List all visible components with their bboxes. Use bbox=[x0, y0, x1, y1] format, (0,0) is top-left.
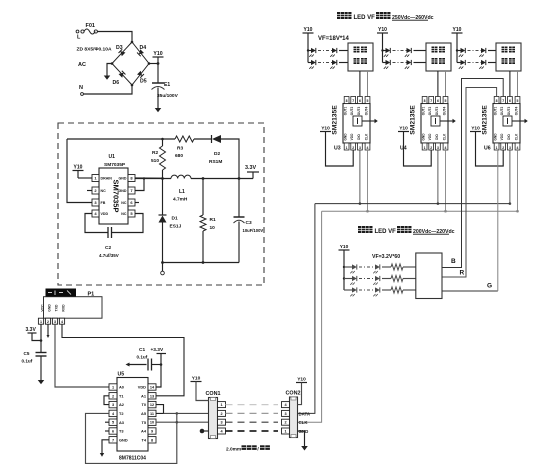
svg-text:E1: E1 bbox=[164, 82, 170, 88]
svg-text:P1: P1 bbox=[88, 292, 95, 298]
svg-text:OUT3: OUT3 bbox=[357, 107, 361, 116]
net terminal Y10 (rectified bus) bbox=[153, 51, 164, 64]
svg-text:GND: GND bbox=[494, 133, 498, 141]
diode D1 bbox=[159, 179, 182, 263]
svg-text:D3: D3 bbox=[116, 45, 123, 51]
svg-text:CON2: CON2 bbox=[286, 391, 301, 397]
diode D4 bbox=[137, 49, 144, 56]
svg-text:Y10: Y10 bbox=[153, 51, 162, 57]
svg-text:1: 1 bbox=[346, 146, 348, 150]
svg-text:2: 2 bbox=[352, 146, 354, 150]
svg-text:2: 2 bbox=[430, 146, 432, 150]
svg-text:VDD: VDD bbox=[500, 133, 504, 140]
svg-text:10uF/100V: 10uF/100V bbox=[243, 228, 264, 233]
top rail wire bbox=[67, 138, 175, 140]
CON1 pin4 key mark bbox=[200, 429, 209, 434]
svg-text:1: 1 bbox=[220, 403, 222, 407]
svg-text:Y10: Y10 bbox=[74, 164, 83, 170]
svg-text:ES1J: ES1J bbox=[170, 224, 182, 230]
svg-text:VCC: VCC bbox=[41, 304, 45, 312]
svg-text:C5: C5 bbox=[24, 351, 30, 356]
CLK drop to CON2 bbox=[298, 211, 322, 422]
svg-text:GND: GND bbox=[119, 189, 127, 193]
svg-text:NC: NC bbox=[101, 189, 107, 193]
dashed enclosure (non-isolated supply) bbox=[58, 123, 264, 285]
svg-text:VDD: VDD bbox=[138, 385, 146, 390]
svg-text:DATA: DATA bbox=[299, 411, 311, 416]
U5 pins 1-7 bbox=[109, 384, 128, 443]
svg-text:U6: U6 bbox=[484, 146, 491, 152]
svg-text:8: 8 bbox=[346, 99, 348, 103]
svg-text:Y10: Y10 bbox=[304, 27, 313, 33]
pin8 wire to rail bbox=[135, 177, 163, 179]
harness label bbox=[226, 445, 270, 452]
svg-text:12: 12 bbox=[150, 403, 154, 407]
U4 DIO/CLK drop wires bbox=[437, 150, 439, 204]
svg-text:1: 1 bbox=[424, 146, 426, 150]
svg-text:U5: U5 bbox=[118, 372, 125, 378]
svg-text:8: 8 bbox=[496, 99, 498, 103]
diode D2 bbox=[209, 135, 222, 165]
net terminal +3.3V bbox=[151, 347, 167, 365]
capacitor C1 bbox=[126, 347, 163, 371]
svg-text:CLK: CLK bbox=[365, 133, 369, 140]
net terminal Y10 LED string bbox=[339, 244, 350, 290]
diode D6 bbox=[119, 71, 126, 78]
LED string group 2 row 2 bbox=[383, 60, 427, 69]
LED string group 3 row 1 bbox=[457, 48, 496, 57]
svg-text:5: 5 bbox=[112, 421, 114, 425]
svg-text:6: 6 bbox=[359, 99, 361, 103]
net terminal Y10 at U4 bbox=[398, 125, 431, 166]
svg-text:A1: A1 bbox=[141, 393, 147, 398]
svg-text:Y10: Y10 bbox=[399, 125, 408, 131]
svg-text:SM7035P: SM7035P bbox=[104, 162, 126, 168]
svg-text:10: 10 bbox=[150, 421, 154, 425]
DIO bus wire bbox=[315, 203, 510, 205]
resistor R2 bbox=[162, 139, 164, 146]
svg-text:+3.3V: +3.3V bbox=[151, 347, 164, 353]
mid rail wire (SW node to output) bbox=[135, 178, 171, 180]
LED string group 3 row 2 bbox=[457, 60, 496, 69]
svg-text:OUT3: OUT3 bbox=[435, 107, 439, 116]
svg-text:5: 5 bbox=[367, 99, 369, 103]
svg-text:2: 2 bbox=[47, 320, 49, 324]
svg-text:OUT4: OUT4 bbox=[365, 107, 369, 116]
svg-text:3.3V: 3.3V bbox=[245, 165, 256, 171]
pin6 stub bbox=[135, 202, 139, 204]
harness wire 4 bbox=[226, 430, 279, 432]
svg-text:OUT4: OUT4 bbox=[443, 107, 447, 116]
svg-text:A0: A0 bbox=[119, 385, 124, 390]
svg-text:2: 2 bbox=[220, 412, 222, 416]
svg-text:SM2135E: SM2135E bbox=[410, 105, 417, 135]
LED module box group 2 (cool/warm white) bbox=[426, 43, 451, 71]
svg-text:4.7mH: 4.7mH bbox=[173, 197, 188, 203]
svg-text:OUT2: OUT2 bbox=[500, 107, 504, 116]
svg-text:ZD 8X5/Φ0.10A: ZD 8X5/Φ0.10A bbox=[77, 47, 112, 53]
LED module box group 1 (cool/warm white) bbox=[348, 43, 373, 71]
svg-text:8M7811C04: 8M7811C04 bbox=[119, 456, 146, 462]
svg-text:OUT2: OUT2 bbox=[350, 107, 354, 116]
net terminal Y10 LED group 3 bbox=[452, 27, 463, 63]
svg-text:2: 2 bbox=[502, 146, 504, 150]
terminal N bbox=[79, 85, 83, 95]
svg-text:DIO: DIO bbox=[435, 134, 439, 140]
svg-text:CON1: CON1 bbox=[206, 391, 221, 397]
svg-text:680: 680 bbox=[175, 153, 183, 159]
svg-text:5: 5 bbox=[445, 99, 447, 103]
svg-text:4: 4 bbox=[517, 146, 519, 150]
LED string row 2 bbox=[344, 276, 416, 285]
svg-text:N: N bbox=[79, 85, 83, 91]
bottom rail wire bbox=[163, 262, 240, 264]
svg-text:OUT4: OUT4 bbox=[515, 107, 519, 116]
wire R channel to U6 bbox=[442, 88, 497, 278]
svg-text:Y10: Y10 bbox=[297, 376, 306, 382]
svg-text:C2: C2 bbox=[105, 245, 111, 251]
svg-text:1: 1 bbox=[40, 320, 42, 324]
svg-text:3: 3 bbox=[112, 403, 114, 407]
U4 top pins bbox=[422, 97, 448, 116]
svg-text:4.7uf/35V: 4.7uf/35V bbox=[99, 253, 119, 258]
svg-text:6: 6 bbox=[437, 99, 439, 103]
svg-text:OUT1: OUT1 bbox=[344, 107, 348, 116]
left vertical wire to FB bbox=[67, 139, 92, 203]
title 250Vdc group bbox=[337, 12, 434, 21]
svg-text:AC: AC bbox=[78, 62, 86, 68]
svg-text:RS1M: RS1M bbox=[209, 159, 222, 165]
svg-text:0.1uf: 0.1uf bbox=[137, 355, 148, 360]
U4 bottom pins bbox=[422, 133, 448, 150]
svg-text:4: 4 bbox=[445, 146, 447, 150]
svg-text:D6: D6 bbox=[113, 80, 120, 86]
net terminal Y10 LED group 2 bbox=[377, 27, 388, 63]
svg-text:R: R bbox=[460, 270, 465, 277]
harness wire 1 bbox=[226, 404, 279, 406]
svg-text:CLK: CLK bbox=[299, 420, 309, 425]
svg-text:3: 3 bbox=[284, 412, 286, 416]
U5 pin4 loop wire bbox=[86, 413, 177, 463]
harness wire 2 bbox=[226, 412, 279, 414]
svg-text:A3: A3 bbox=[119, 420, 125, 425]
svg-text:G: G bbox=[487, 283, 492, 290]
U6 DIO/CLK drop wires bbox=[509, 150, 511, 204]
svg-text:2: 2 bbox=[284, 421, 286, 425]
driver IC U6 SM2135E bbox=[482, 104, 521, 152]
U1 pins 5-8 bbox=[119, 175, 136, 218]
MCU U5 bbox=[117, 372, 148, 462]
svg-text:4: 4 bbox=[367, 146, 369, 150]
svg-text:VF=3.2V*60: VF=3.2V*60 bbox=[372, 254, 400, 260]
svg-text:3: 3 bbox=[359, 146, 361, 150]
svg-text:35u/100V: 35u/100V bbox=[157, 93, 179, 99]
svg-text:OUT3: OUT3 bbox=[507, 107, 511, 116]
fuse F01 bbox=[81, 23, 98, 34]
svg-text:11: 11 bbox=[150, 412, 154, 416]
wire P1 pin3 to U5 pin1 bbox=[55, 324, 109, 387]
svg-text:7: 7 bbox=[112, 438, 114, 442]
svg-text:1: 1 bbox=[496, 146, 498, 150]
svg-text:OUT1: OUT1 bbox=[422, 107, 426, 116]
svg-text:DRAIN: DRAIN bbox=[101, 177, 113, 181]
LED string group 2 row 1 bbox=[383, 48, 427, 57]
svg-text:1: 1 bbox=[112, 386, 114, 390]
svg-text:LED VF: LED VF bbox=[354, 15, 376, 21]
svg-text:RXD: RXD bbox=[62, 304, 66, 312]
LED string row 3 bbox=[344, 287, 416, 296]
diode D5 bbox=[137, 71, 144, 78]
svg-text:R1: R1 bbox=[210, 217, 216, 223]
svg-text:A2: A2 bbox=[119, 402, 125, 407]
svg-text:R2: R2 bbox=[152, 150, 158, 156]
ground below E1 bbox=[155, 108, 162, 112]
CLK bus wire bbox=[322, 210, 518, 212]
U4 internal current source bbox=[431, 116, 456, 126]
capacitor C5 bbox=[22, 324, 47, 380]
LED string row 1 bbox=[344, 264, 416, 273]
LED box to chip wires U6 bbox=[509, 71, 511, 97]
svg-text:7: 7 bbox=[502, 99, 504, 103]
capacitor E1 bbox=[152, 64, 179, 109]
svg-text:Y10: Y10 bbox=[340, 244, 349, 250]
net terminal 3.3V at P1 bbox=[26, 327, 43, 342]
wire P1 pin4 to U5 pin13 bbox=[62, 324, 184, 396]
svg-text:4: 4 bbox=[61, 320, 63, 324]
capacitor C3 bbox=[234, 177, 264, 262]
ground at bridge left bbox=[107, 64, 112, 76]
svg-text:NC: NC bbox=[121, 212, 127, 216]
svg-text:OUT2: OUT2 bbox=[428, 107, 432, 116]
svg-text:D2: D2 bbox=[214, 151, 220, 157]
svg-text:Y10: Y10 bbox=[378, 27, 387, 33]
U3 internal current source bbox=[353, 116, 378, 126]
svg-text:DIO: DIO bbox=[357, 134, 361, 140]
P1 pin labels bbox=[41, 304, 66, 312]
bridge junction dots bbox=[131, 41, 134, 44]
svg-text:1: 1 bbox=[284, 430, 286, 434]
svg-text:GND: GND bbox=[119, 177, 127, 181]
svg-text:DIO: DIO bbox=[507, 134, 511, 140]
svg-text:T0: T0 bbox=[141, 402, 146, 407]
wire bridge right to node bbox=[149, 63, 158, 65]
wire U5 pin11 to CON1 pin2 bbox=[164, 412, 209, 414]
net terminal Y10 at CON2 bbox=[296, 376, 307, 404]
svg-text:U3: U3 bbox=[334, 146, 341, 152]
svg-text:3: 3 bbox=[54, 320, 56, 324]
svg-text:Y10: Y10 bbox=[321, 125, 330, 131]
svg-text:7: 7 bbox=[352, 99, 354, 103]
svg-text:7: 7 bbox=[430, 99, 432, 103]
svg-text:C3: C3 bbox=[246, 220, 252, 226]
DIO drop to CON2 bbox=[298, 204, 315, 414]
wire D2 to right corner down to output rail bbox=[221, 139, 239, 179]
svg-text:F01: F01 bbox=[86, 23, 95, 29]
capacitor C2 bbox=[85, 214, 143, 259]
RGB interface box bbox=[416, 253, 442, 299]
P1 pins 1-4 bbox=[38, 318, 64, 324]
U5 pins 11-12 jumper bbox=[156, 405, 164, 414]
svg-text:FB: FB bbox=[101, 201, 106, 205]
CON1 pins bbox=[218, 402, 226, 434]
svg-text:510: 510 bbox=[151, 158, 159, 164]
svg-text:0.1uf: 0.1uf bbox=[22, 359, 33, 364]
U5 pin5 stub bbox=[105, 421, 109, 423]
svg-text:TXD: TXD bbox=[55, 304, 59, 311]
svg-text:C1: C1 bbox=[139, 347, 145, 353]
connector CON2 bbox=[286, 391, 301, 438]
LED box to chip wires U3 bbox=[359, 71, 361, 97]
svg-text:13: 13 bbox=[150, 394, 154, 398]
svg-text:U1: U1 bbox=[109, 154, 116, 160]
ground below C5 bbox=[38, 380, 45, 384]
U3 bottom pins bbox=[344, 133, 370, 150]
svg-text:3.3V: 3.3V bbox=[26, 327, 37, 333]
inductor L1 bbox=[171, 175, 191, 178]
wire R3 to D2 bbox=[194, 138, 211, 140]
svg-text:Y10: Y10 bbox=[192, 375, 201, 381]
svg-text:5: 5 bbox=[517, 99, 519, 103]
U6 top pins bbox=[494, 97, 520, 116]
svg-text:D5: D5 bbox=[140, 79, 147, 85]
net terminal Y10 LED group 1 bbox=[303, 27, 314, 63]
svg-text:LED VF: LED VF bbox=[375, 229, 397, 235]
wire +3.3V to U5 VDD bbox=[156, 365, 161, 388]
resistor R1 bbox=[200, 177, 216, 262]
svg-text:VDD: VDD bbox=[428, 133, 432, 140]
svg-text:CLK: CLK bbox=[443, 133, 447, 140]
svg-text:3: 3 bbox=[509, 146, 511, 150]
svg-text:6: 6 bbox=[509, 99, 511, 103]
svg-text:GND: GND bbox=[344, 133, 348, 141]
LED box to chip wires U4 bbox=[437, 71, 439, 97]
svg-text:10: 10 bbox=[210, 225, 216, 231]
U1 pins 1-4 bbox=[92, 175, 112, 218]
wire U5 pin10 to CON1 pin3 bbox=[156, 421, 209, 423]
wire N to bridge bottom bbox=[84, 85, 133, 94]
svg-text:2.0mm: 2.0mm bbox=[226, 446, 241, 452]
wire G channel to U6 bbox=[442, 290, 498, 292]
node stub below rail bbox=[162, 263, 164, 272]
net terminal Y10 at U3 bbox=[320, 125, 353, 166]
wire B channel to U6 bbox=[442, 79, 503, 268]
svg-text:Y10: Y10 bbox=[453, 27, 462, 33]
driver IC U4 SM2135E bbox=[400, 104, 448, 152]
wire fuse to bridge top bbox=[97, 32, 132, 43]
svg-text:OUT1: OUT1 bbox=[494, 107, 498, 116]
net terminal Y10 at U6 bbox=[470, 125, 503, 166]
driver IC U3 SM2135E bbox=[332, 104, 371, 152]
svg-text:A4: A4 bbox=[141, 429, 147, 434]
svg-text:SM7035P: SM7035P bbox=[112, 180, 121, 213]
svg-text:GND: GND bbox=[422, 133, 426, 141]
bridge rectifier frame bbox=[112, 42, 149, 85]
CON2 pins bbox=[282, 402, 290, 434]
svg-text:NC: NC bbox=[121, 201, 127, 205]
pin2 stub bbox=[87, 190, 92, 192]
svg-text:3: 3 bbox=[220, 421, 222, 425]
svg-text:B: B bbox=[451, 258, 456, 265]
op IC U1 SM7035P bbox=[99, 154, 128, 224]
svg-text:SM2135E: SM2135E bbox=[482, 105, 489, 135]
svg-text:6: 6 bbox=[112, 430, 114, 434]
U3 top pins bbox=[344, 97, 370, 116]
resistor R3 bbox=[175, 136, 194, 142]
LED string group 1 row 1 bbox=[308, 48, 348, 57]
U3 DIO/CLK drop wires bbox=[359, 150, 361, 204]
svg-text:SM2135E: SM2135E bbox=[332, 105, 339, 135]
U6 bottom pins bbox=[494, 133, 520, 150]
U5 pins 2-3 jumper bbox=[104, 396, 109, 405]
svg-text:8: 8 bbox=[424, 99, 426, 103]
svg-text:GND: GND bbox=[119, 437, 128, 442]
net terminal Y10 at CON1 bbox=[191, 375, 209, 400]
svg-text:VF=18V*14: VF=18V*14 bbox=[318, 36, 350, 42]
connector CON1 bbox=[206, 391, 221, 439]
pin7 elbow wire bbox=[135, 179, 144, 191]
U6 internal current source bbox=[503, 116, 528, 126]
U5 pin6 stub bbox=[105, 430, 109, 432]
svg-text:A5: A5 bbox=[141, 411, 147, 416]
label bluetooth (highlighted) bbox=[46, 289, 77, 297]
svg-text:D4: D4 bbox=[140, 45, 147, 51]
svg-text:CLK: CLK bbox=[515, 133, 519, 140]
harness wire 3 bbox=[226, 421, 279, 423]
svg-text:9: 9 bbox=[151, 430, 153, 434]
svg-text:D1: D1 bbox=[172, 216, 178, 222]
svg-text:R3: R3 bbox=[177, 146, 183, 152]
U5 GND wire bbox=[102, 440, 109, 453]
terminal L bbox=[76, 30, 81, 40]
title 200Vdc group bbox=[358, 226, 455, 235]
LED module box group 3 (cool/warm white) bbox=[496, 43, 521, 71]
output terminal 3.3V bbox=[245, 165, 259, 179]
svg-text:VDD: VDD bbox=[101, 212, 109, 216]
svg-text:2: 2 bbox=[112, 394, 114, 398]
P1 pin2 stub bbox=[47, 324, 49, 335]
U5 pins 8-14 bbox=[138, 384, 156, 443]
svg-text:VDD: VDD bbox=[350, 133, 354, 140]
LED string group 1 row 2 bbox=[308, 60, 348, 69]
CON2 ground bbox=[298, 431, 305, 446]
net terminal Y10 at U1 bbox=[73, 164, 93, 178]
connector P1 (bluetooth module) bbox=[44, 297, 103, 319]
svg-text:L1: L1 bbox=[179, 189, 185, 195]
svg-text:GND: GND bbox=[48, 304, 52, 312]
svg-text:Y10: Y10 bbox=[471, 125, 480, 131]
svg-text:3: 3 bbox=[437, 146, 439, 150]
diode D3 bbox=[119, 49, 126, 56]
svg-text:8: 8 bbox=[151, 438, 153, 442]
